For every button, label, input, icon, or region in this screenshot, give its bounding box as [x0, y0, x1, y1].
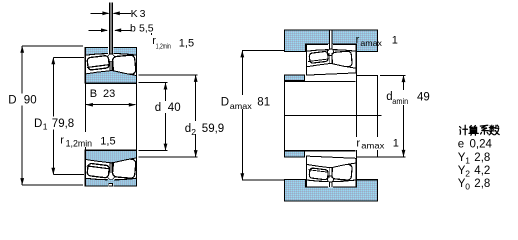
bottom OD groove notch: [109, 184, 113, 186]
svg-text:1,2min: 1,2min: [66, 138, 93, 148]
svg-text:40: 40: [168, 102, 181, 114]
dimension D (outer diameter): [20, 46, 83, 185]
shaft shoulder surface bottom-right: [357, 156, 378, 158]
svg-text:2: 2: [465, 169, 470, 179]
svg-text:4,2: 4,2: [474, 165, 490, 177]
svg-text:0,24: 0,24: [470, 139, 493, 151]
shaft seat line bottom: [285, 150, 356, 152]
label D 90: [7, 94, 37, 107]
dimension d2: [139, 75, 198, 157]
roller row 2: [332, 51, 353, 68]
svg-text:1: 1: [43, 122, 48, 132]
lubrication hole lines through housing band: [329, 30, 332, 44]
svg-text:D: D: [8, 94, 16, 106]
label r amax 1 (top): [356, 34, 398, 48]
shaft left end face: [284, 75, 286, 157]
funnel: [328, 49, 334, 55]
svg-text:amax: amax: [230, 101, 253, 111]
svg-text:1,5: 1,5: [179, 38, 194, 50]
lubrication groove W33 gap in outer ring: [108, 47, 113, 56]
cage bar left: [87, 65, 110, 68]
label D1 79,8: [33, 117, 75, 132]
lubrication hole slot through housing band: [330, 31, 332, 45]
svg-text:23: 23: [103, 88, 115, 100]
svg-text:D: D: [221, 96, 229, 108]
bearing bottom half-section (mirror): [85, 150, 137, 186]
char 数: [489, 125, 499, 135]
roller row 1: [309, 51, 329, 63]
shaft seat line top: [285, 80, 356, 82]
lubrication hole K lines: [110, 47, 113, 56]
bearing side faces: [85, 48, 136, 84]
hole gap: [328, 44, 333, 50]
guide ring lines right dwg: [330, 55, 332, 63]
bearing side faces: [307, 44, 357, 75]
bearing section bottom half (mirror): [307, 156, 357, 187]
label r 1,2min 1,5 (bottom): [58, 132, 119, 148]
label d2 59,9: [183, 121, 227, 137]
outer ring (white): [307, 44, 357, 51]
bearing top half-section: [85, 47, 137, 83]
r chamfer tick: [151, 33, 153, 37]
svg-text:90: 90: [24, 94, 37, 106]
label r 1,2min 1,5 (top): [151, 35, 197, 51]
inner ring (blue): [85, 71, 137, 84]
svg-text:1: 1: [392, 34, 398, 46]
svg-text:2,8: 2,8: [474, 178, 490, 190]
svg-text:1,5: 1,5: [100, 135, 115, 147]
label d 40: [153, 101, 183, 114]
svg-text:r: r: [60, 135, 64, 147]
bottom band hole neck patch: [108, 179, 114, 183]
label damin 49: [385, 90, 431, 106]
bearing section in housing : top half: [307, 44, 357, 75]
char 计: [460, 125, 468, 135]
cage bar: [308, 59, 328, 62]
svg-text:81: 81: [257, 96, 270, 108]
shaft shoulder surface top-right: [357, 74, 378, 76]
svg-text:d: d: [185, 123, 191, 135]
svg-text:r: r: [356, 34, 360, 46]
roller row 1 (left): [87, 55, 110, 70]
svg-text:B: B: [90, 88, 97, 100]
dimension D1: [51, 57, 84, 174]
svg-text:1: 1: [393, 137, 399, 149]
svg-text:e: e: [458, 139, 464, 151]
abutment ring top-left (blue): [285, 75, 305, 81]
label r amax 1 (bottom): [355, 137, 399, 150]
svg-text:amax: amax: [361, 140, 385, 150]
hole funnel: [107, 54, 114, 61]
svg-text:amin: amin: [392, 96, 408, 106]
K hole extension lines: [110, 3, 113, 48]
heading 计算系数 (vector strokes): [460, 125, 500, 135]
svg-text:D: D: [34, 118, 42, 130]
shaft shoulder face right: [356, 51, 358, 180]
dimension damin: [358, 75, 406, 157]
svg-text:b: b: [130, 23, 136, 35]
housing bottom (band + left shoulder + right block): [284, 180, 377, 201]
guide ring lines: [110, 61, 112, 70]
bearing face lines through bore gap: [85, 83, 136, 150]
svg-text:r: r: [356, 137, 360, 149]
shaft outline: [285, 51, 382, 180]
label Damax 81: [219, 95, 271, 111]
svg-text:59,9: 59,9: [202, 123, 224, 135]
dimension K arrows: [91, 11, 132, 15]
svg-text:3: 3: [140, 8, 146, 20]
svg-text:79,8: 79,8: [52, 118, 74, 130]
svg-text:amax: amax: [360, 38, 382, 48]
roller row 2 (right): [112, 55, 136, 76]
char 系: [480, 125, 488, 134]
svg-text:49: 49: [417, 91, 430, 103]
svg-text:0: 0: [465, 182, 470, 192]
outer ring (blue): [85, 48, 137, 56]
svg-text:2: 2: [191, 127, 196, 137]
dimension B (width): [86, 103, 136, 107]
dimension Damax: [240, 50, 284, 180]
shaft right end face: [377, 75, 379, 157]
dimension d (bore): [139, 83, 168, 151]
shaft axis line: [285, 114, 382, 116]
inner ring (white): [307, 64, 357, 76]
svg-text:1,2min: 1,2min: [156, 42, 171, 51]
housing top (band + left shoulder + right block): [284, 30, 377, 51]
dimension b arrows: [89, 28, 132, 32]
svg-text:5,5: 5,5: [139, 23, 154, 35]
svg-text:d: d: [155, 102, 161, 114]
svg-text:2,8: 2,8: [474, 152, 490, 164]
svg-text:1: 1: [465, 156, 470, 166]
abutment ring bottom-left (blue): [285, 151, 305, 157]
bore line: [85, 82, 137, 84]
char 算: [469, 126, 478, 136]
svg-text:K: K: [131, 8, 138, 20]
